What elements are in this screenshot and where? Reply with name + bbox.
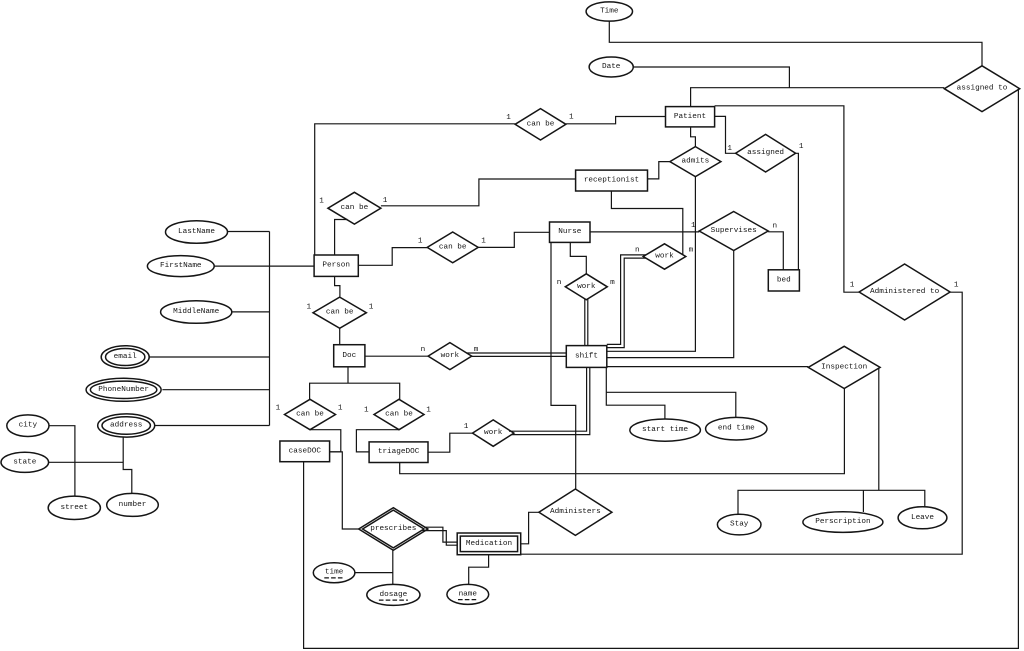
svg-text:Date: Date: [602, 63, 621, 71]
attribute Leave: [898, 507, 947, 529]
attribute FirstName: [147, 256, 214, 277]
wire can be - Nurse: [478, 232, 549, 247]
wire Nurse - Supervises: [590, 231, 699, 233]
wire prescribes - dosage: [392, 550, 394, 584]
wire Patient - Administered to: [715, 106, 860, 292]
wire Patient - assigned: [715, 116, 736, 153]
svg-text:m: m: [474, 346, 479, 354]
wire collector Stay/Perscription/Leave: [738, 490, 925, 514]
svg-text:1: 1: [369, 304, 374, 312]
svg-text:m: m: [689, 246, 694, 254]
wire Nurse - work: [570, 242, 586, 273]
wire can be - triageDOC: [356, 430, 399, 452]
wire shift - Inspection: [607, 366, 809, 368]
relationship work (Nurse-shift): [565, 274, 607, 300]
entity Medication (weak): [457, 533, 521, 555]
svg-text:state: state: [13, 458, 36, 466]
relationship can be (Doc-triageDOC): [374, 399, 424, 429]
attribute time (derived): [313, 563, 355, 583]
svg-text:n: n: [772, 222, 777, 230]
wire LastName - collector: [228, 231, 270, 233]
svg-text:Administers: Administers: [550, 508, 601, 516]
svg-text:Nurse: Nurse: [558, 228, 581, 236]
relationship work (triageDOC-shift): [473, 420, 514, 446]
relationship assigned to: [944, 66, 1019, 112]
svg-text:Patient: Patient: [674, 113, 706, 121]
svg-text:caseDOC: caseDOC: [289, 447, 322, 455]
entity shift: [566, 346, 607, 368]
relationship can be (Person-Doc): [313, 297, 366, 328]
wire Supervises - bed: [768, 232, 783, 270]
wire email - collector: [149, 356, 269, 358]
svg-text:assigned: assigned: [747, 149, 784, 157]
attribute city: [7, 415, 49, 437]
relationship Administered to: [859, 264, 950, 320]
svg-text:1: 1: [364, 407, 369, 415]
svg-text:n: n: [557, 279, 562, 287]
wire Date - assigned to: [633, 67, 789, 88]
wire prescribes = Medication (double line): [423, 527, 458, 545]
svg-text:triageDOC: triageDOC: [378, 448, 420, 456]
svg-text:1: 1: [426, 407, 431, 415]
wire MiddleName - collector: [232, 311, 270, 313]
wire address - number: [123, 437, 132, 493]
svg-text:Administered to: Administered to: [870, 288, 940, 296]
entity Doc: [334, 345, 365, 367]
entity bed: [768, 270, 799, 291]
wire shift - end time: [606, 392, 736, 417]
attribute street: [48, 496, 100, 519]
attribute MiddleName: [161, 301, 232, 324]
wire attribute collector vertical: [269, 232, 271, 426]
attribute dosage (derived): [367, 584, 420, 605]
attribute Perscription: [803, 512, 883, 533]
svg-text:1: 1: [276, 405, 281, 413]
wire assigned - bed: [796, 153, 799, 269]
svg-text:can be: can be: [527, 120, 555, 128]
wire Doc fork to can-be diamonds: [310, 367, 400, 400]
wire triageDOC - Inspection: [400, 389, 845, 474]
wire work = shift (double line, receptionist): [607, 255, 646, 348]
svg-text:prescribes: prescribes: [370, 525, 416, 533]
svg-text:work: work: [655, 253, 674, 261]
svg-text:end time: end time: [718, 425, 755, 433]
svg-text:can be: can be: [439, 243, 467, 251]
svg-text:1: 1: [338, 405, 343, 413]
svg-text:Person: Person: [322, 262, 350, 270]
wire work = shift (double line): [467, 353, 567, 356]
svg-text:1: 1: [569, 113, 574, 121]
svg-text:Time: Time: [600, 8, 619, 16]
svg-text:1: 1: [850, 282, 855, 290]
wire Person - can be (Doc branch): [335, 276, 340, 297]
svg-text:n: n: [635, 246, 640, 254]
svg-text:can be: can be: [326, 309, 354, 317]
wire Administers - Medication: [521, 512, 539, 544]
wire triageDOC - work: [428, 433, 473, 452]
wire Patient - admits: [691, 127, 696, 147]
entity Patient: [666, 107, 715, 127]
wire city - street: [49, 426, 75, 497]
attribute Stay: [717, 514, 761, 535]
relationship can be (Patient-Person): [515, 109, 566, 140]
wire shift - start time: [606, 367, 665, 419]
svg-text:1: 1: [506, 114, 511, 122]
relationship can be (Person-Nurse): [427, 232, 478, 263]
svg-text:Stay: Stay: [730, 521, 749, 529]
relationship can be (Doc-caseDOC): [285, 399, 336, 429]
attribute name (derived): [447, 584, 489, 604]
svg-text:shift: shift: [575, 353, 598, 361]
svg-text:1: 1: [464, 423, 469, 431]
svg-text:LastName: LastName: [178, 228, 215, 236]
svg-text:Inspection: Inspection: [821, 363, 867, 371]
svg-text:1: 1: [799, 143, 804, 151]
wire can be - Person: [315, 124, 515, 255]
wire Person - can be (Nurse branch): [358, 248, 427, 266]
wire time - prescribes stem: [355, 572, 393, 574]
wire admits - shift: [607, 177, 696, 352]
wire can be - receptionist: [381, 179, 576, 206]
wire receptionist - admits: [648, 162, 670, 179]
svg-text:MiddleName: MiddleName: [173, 308, 220, 316]
svg-text:work: work: [577, 283, 596, 291]
svg-text:1: 1: [306, 304, 311, 312]
wire caseDOC - assigned to (outer loop): [304, 89, 1019, 648]
wire work = shift (double line, Nurse): [585, 299, 588, 346]
attribute state: [1, 452, 49, 472]
svg-text:1: 1: [319, 198, 324, 206]
entity caseDOC: [280, 441, 330, 462]
svg-text:number: number: [119, 501, 147, 509]
attribute number: [107, 493, 159, 516]
svg-text:time: time: [325, 569, 344, 577]
svg-text:admits: admits: [682, 158, 710, 166]
wire Medication - Administered to: [521, 292, 963, 554]
wire state - address stem: [49, 461, 124, 463]
wire FirstName - Person: [214, 265, 314, 267]
wire Time - assigned to: [609, 21, 982, 66]
relationship prescribes (identifying): [359, 508, 428, 551]
wire Nurse - Administers: [551, 242, 576, 489]
entity triageDOC: [369, 442, 428, 463]
svg-text:bed: bed: [777, 276, 791, 284]
wire work = shift (double line, lower): [509, 367, 590, 434]
svg-text:start time: start time: [642, 426, 689, 434]
svg-text:PhoneNumber: PhoneNumber: [98, 386, 149, 394]
svg-text:Supervises: Supervises: [711, 227, 757, 235]
svg-text:m: m: [610, 279, 615, 287]
entity Person: [314, 255, 358, 276]
svg-text:1: 1: [383, 197, 388, 205]
wire Person - can be (receptionist branch): [335, 220, 348, 256]
svg-text:assigned to: assigned to: [957, 85, 1008, 93]
entity Nurse: [550, 222, 591, 242]
relationship Administers: [539, 489, 612, 535]
attribute Date: [589, 57, 633, 77]
wire Supervises - shift: [607, 251, 734, 358]
wire can be - caseDOC: [310, 430, 341, 452]
relationship Supervises: [699, 212, 768, 251]
attribute start time: [630, 419, 701, 441]
svg-text:dosage: dosage: [380, 591, 408, 599]
svg-text:can be: can be: [296, 411, 324, 419]
entity receptionist: [576, 170, 648, 191]
wire can be - Doc: [339, 328, 341, 344]
svg-text:1: 1: [727, 145, 732, 153]
svg-text:FirstName: FirstName: [160, 262, 202, 270]
svg-text:email: email: [114, 353, 137, 361]
svg-text:1: 1: [954, 281, 959, 289]
attribute PhoneNumber (multivalued): [86, 378, 161, 401]
relationship work (receptionist-shift): [643, 244, 686, 269]
relationship work (Doc-shift): [428, 343, 472, 370]
svg-text:city: city: [19, 422, 38, 430]
wire PhoneNumber - collector: [162, 389, 269, 391]
svg-text:name: name: [459, 590, 478, 598]
svg-text:work: work: [441, 352, 460, 360]
svg-text:Perscription: Perscription: [815, 518, 870, 526]
wire Doc - work: [365, 355, 428, 357]
svg-text:receptionist: receptionist: [584, 177, 639, 185]
svg-text:can be: can be: [385, 411, 413, 419]
svg-text:1: 1: [418, 238, 423, 246]
wire address - collector: [155, 425, 270, 427]
attribute LastName: [166, 221, 228, 244]
relationship admits: [670, 147, 721, 177]
svg-text:work: work: [484, 429, 503, 437]
attribute address (multivalued): [98, 414, 155, 437]
relationship assigned: [736, 134, 796, 172]
wire caseDOC - prescribes: [330, 452, 359, 529]
svg-text:Leave: Leave: [911, 514, 934, 522]
relationship can be (Person-receptionist): [328, 192, 381, 224]
wire receptionist - work: [611, 191, 682, 255]
svg-text:Medication: Medication: [466, 540, 512, 548]
relationship Inspection: [808, 346, 880, 388]
svg-text:can be: can be: [341, 204, 369, 212]
svg-text:1: 1: [481, 238, 486, 246]
attribute email (multivalued): [101, 346, 149, 369]
attribute end time: [706, 417, 767, 440]
wire can be - Patient: [566, 117, 666, 124]
wire Inspection - attribute collector: [878, 368, 880, 490]
attribute Time: [586, 2, 632, 21]
svg-text:n: n: [421, 346, 426, 354]
wire Medication - name: [469, 555, 489, 585]
svg-text:street: street: [60, 504, 88, 512]
wire Patient - assigned to: [691, 88, 945, 107]
svg-text:Doc: Doc: [342, 352, 356, 360]
svg-text:1: 1: [691, 222, 696, 230]
svg-text:address: address: [110, 422, 142, 430]
